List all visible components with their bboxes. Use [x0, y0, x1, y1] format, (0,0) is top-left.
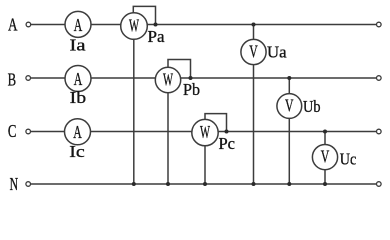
- voltmeter V Ua circle: [241, 39, 266, 64]
- wire Pb coil to N vertical: [167, 93, 169, 184]
- terminal left B: [26, 76, 31, 81]
- svg-text:Ib: Ib: [70, 88, 87, 107]
- ammeter A3 (Ic) circle: [65, 119, 91, 145]
- junction Ub tap on wire B: [287, 76, 291, 80]
- wattmeter W Pc circle: [192, 119, 218, 145]
- junction Uc tap on wire C: [323, 130, 327, 134]
- terminal left N: [26, 182, 31, 187]
- junction Pa tap on wire A: [154, 23, 158, 27]
- terminal left C: [26, 129, 31, 134]
- svg-text:W: W: [200, 122, 210, 142]
- terminal right A: [377, 22, 382, 27]
- wire Ub to N vertical: [288, 118, 290, 184]
- svg-text:Pc: Pc: [219, 134, 236, 153]
- voltmeter V Uc circle: [312, 145, 337, 170]
- junction Ua on wire N: [252, 182, 256, 186]
- svg-text:A: A: [74, 69, 83, 89]
- junction Uc on wire N: [323, 182, 327, 186]
- wire Ua to N vertical: [253, 65, 255, 184]
- svg-text:C: C: [8, 121, 17, 141]
- wire phase C horizontal: [31, 131, 377, 133]
- svg-text:N: N: [10, 174, 19, 194]
- svg-text:Ic: Ic: [69, 142, 85, 161]
- wattmeter W Pb voltage tap loop: [168, 60, 191, 79]
- junction Pc coil on wire N: [203, 182, 207, 186]
- wire Uc to N vertical: [324, 170, 326, 184]
- wire Pc coil to N vertical: [204, 146, 206, 184]
- terminal right N: [377, 182, 382, 187]
- svg-text:Ub: Ub: [303, 97, 321, 116]
- wattmeter W Pc voltage tap loop: [205, 114, 227, 132]
- wattmeter W Pa circle: [121, 13, 148, 40]
- junction Ub on wire N: [287, 182, 291, 186]
- junction Pb tap on wire B: [189, 76, 193, 80]
- voltmeter V Ub circle: [277, 94, 302, 119]
- terminal left A: [26, 22, 31, 27]
- svg-text:V: V: [285, 96, 294, 116]
- svg-text:A: A: [74, 15, 83, 35]
- wire phase B horizontal: [31, 77, 377, 79]
- junction Ua tap on wire A: [252, 23, 256, 27]
- wire Pa coil to N vertical: [133, 39, 135, 184]
- wattmeter W Pa voltage tap loop: [133, 6, 155, 24]
- svg-text:Pa: Pa: [148, 27, 165, 46]
- wire phase A horizontal: [31, 24, 377, 26]
- junction Pb coil on wire N: [166, 182, 170, 186]
- svg-text:Ua: Ua: [267, 43, 287, 62]
- svg-text:A: A: [73, 122, 82, 142]
- wire Ub tap from B vertical: [288, 78, 290, 94]
- svg-text:Pb: Pb: [183, 80, 200, 99]
- svg-text:V: V: [249, 42, 258, 62]
- svg-text:W: W: [163, 70, 173, 90]
- svg-text:Uc: Uc: [340, 150, 357, 169]
- svg-text:Ia: Ia: [70, 35, 87, 54]
- terminal right C: [377, 129, 382, 134]
- terminal right B: [377, 76, 382, 81]
- ammeter A2 (Ib) circle: [65, 66, 91, 92]
- wire Ua tap from A vertical: [253, 25, 255, 40]
- junction Pa coil on wire N: [132, 182, 136, 186]
- svg-text:W: W: [129, 16, 139, 36]
- wire neutral N horizontal: [31, 183, 377, 185]
- wire Uc tap from C vertical: [324, 132, 326, 145]
- junction Pc tap on wire C: [225, 130, 229, 134]
- svg-text:B: B: [8, 70, 17, 90]
- svg-text:A: A: [8, 15, 18, 35]
- svg-text:V: V: [321, 147, 330, 167]
- ammeter A1 (Ia) circle: [65, 11, 91, 37]
- wattmeter W Pb circle: [155, 67, 180, 92]
